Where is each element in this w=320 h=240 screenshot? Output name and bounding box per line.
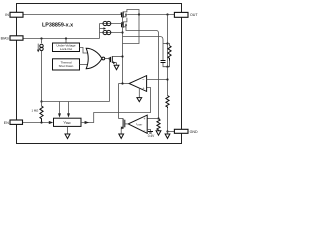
wire thermal to gate	[80, 63, 88, 65]
node uvlo feed	[65, 37, 67, 39]
wire sense to ilimit	[147, 118, 158, 120]
op-amp U1 error amplifier	[129, 76, 147, 92]
ground divider	[165, 132, 170, 139]
wire uvlo to gate	[80, 48, 88, 54]
node ref bias	[40, 100, 42, 102]
wire nor out	[105, 58, 110, 60]
svg-text:EN: EN	[4, 121, 9, 125]
transistor Q2 sense FET	[122, 18, 128, 28]
node sense	[157, 117, 159, 119]
resistor R1	[168, 44, 172, 67]
transistor Q1 pass FET	[122, 12, 128, 18]
arrow bias current	[100, 28, 104, 30]
node gate cs1	[121, 22, 123, 24]
box UVLO	[53, 43, 80, 52]
svg-text:IN: IN	[5, 13, 9, 17]
svg-text:Lock-Out: Lock-Out	[60, 47, 72, 51]
wire ref feed 2	[67, 102, 70, 118]
wire ilimit out	[125, 123, 128, 125]
ground sense	[156, 131, 161, 135]
node gate cs2	[121, 31, 123, 33]
battery 0.4V reference	[148, 132, 155, 139]
svg-text:+: +	[144, 117, 146, 121]
node en	[40, 121, 42, 123]
svg-text:BIAS: BIAS	[1, 37, 10, 41]
box VREF	[54, 118, 82, 126]
svg-text:−: −	[144, 129, 146, 133]
svg-text:Shut Down: Shut Down	[59, 64, 74, 68]
wire BIAS rail	[23, 38, 100, 40]
ground q3	[114, 63, 119, 70]
node amp out	[121, 82, 123, 84]
wire fb node	[167, 67, 169, 96]
ground q4	[119, 134, 124, 138]
node fb	[166, 78, 168, 80]
wire pass drain loop	[123, 10, 139, 15]
wire EN	[23, 122, 50, 124]
node gnd net	[166, 130, 168, 132]
node OUT divider tap	[166, 13, 168, 15]
wire uvlo feed	[65, 39, 67, 44]
NOR gate U3	[86, 48, 105, 68]
svg-text:GND: GND	[190, 130, 198, 134]
svg-text:0.4V: 0.4V	[148, 134, 155, 138]
IC outline border	[17, 4, 182, 144]
wire IN rail	[23, 13, 121, 15]
resistor R2	[166, 96, 169, 132]
pin OUT	[174, 12, 198, 17]
node bias cs	[40, 37, 42, 39]
pin EN	[4, 120, 23, 125]
op-amp U2 ILIMIT	[128, 115, 147, 133]
node rc bottom	[166, 66, 168, 68]
pin IN	[5, 12, 23, 17]
box Thermal Shutdown	[53, 59, 80, 70]
ground vref	[65, 126, 70, 138]
wire to GND pin	[168, 131, 175, 133]
svg-text:OUT: OUT	[190, 13, 198, 17]
wire out sense down	[167, 15, 169, 67]
node rc top	[166, 42, 168, 44]
wire Q gate compensation	[123, 37, 164, 61]
wire ref feed 1	[58, 102, 61, 118]
ground amp	[137, 88, 142, 102]
transistor Q3 gate pulldown	[111, 56, 123, 64]
wire ilimit minus to 0.4V	[147, 130, 150, 132]
svg-text:LP38859-x.x: LP38859-x.x	[42, 22, 73, 28]
wire ref bias rail	[42, 101, 110, 103]
svg-text:1 MΩ: 1 MΩ	[32, 109, 39, 113]
current source I2	[100, 30, 123, 34]
capacitor C1	[161, 61, 168, 67]
wire gate net drop	[109, 59, 111, 102]
resistor R4 sense	[157, 119, 160, 131]
wire bias riser	[99, 24, 101, 39]
wire gate drive vertical	[122, 12, 124, 32]
node on OUT rail	[138, 13, 140, 15]
transistor Q4 ilimit pulldown	[119, 119, 125, 135]
wire vref out	[81, 88, 151, 125]
pin GND	[174, 129, 198, 134]
node q3 drain	[121, 55, 123, 57]
svg-text:VREF: VREF	[63, 121, 71, 126]
arrow en	[49, 121, 53, 124]
wire gate to drain loop	[123, 15, 140, 44]
node nor out	[108, 57, 110, 59]
wire P sense source to rail A	[126, 27, 159, 119]
resistor R3 1M	[32, 102, 44, 123]
wire fb to amp minus	[147, 79, 168, 81]
pin BIAS	[1, 36, 23, 41]
wire amp out	[119, 83, 130, 85]
wire OUT rail	[127, 14, 174, 16]
current source I1	[100, 21, 123, 25]
current source I3 bias	[37, 39, 43, 102]
